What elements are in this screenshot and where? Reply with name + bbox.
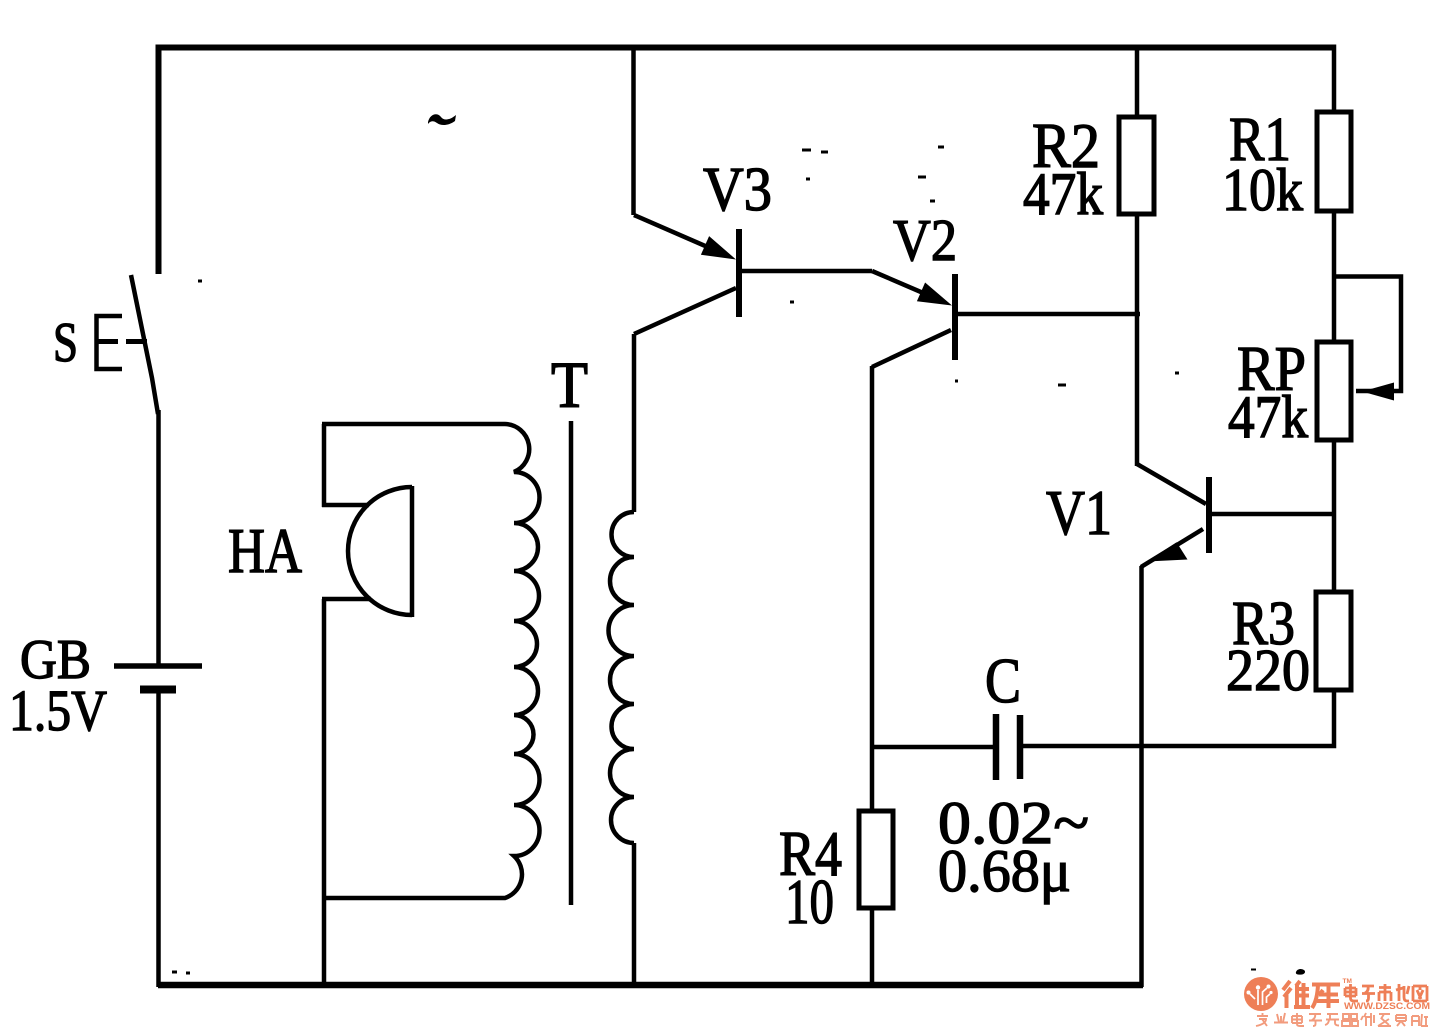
capacitor C plates — [996, 714, 1020, 780]
resistor R4 — [859, 811, 893, 908]
svg-text:T: T — [551, 349, 588, 422]
scan speck dots — [172, 147, 1179, 973]
wire V1 base — [1211, 512, 1336, 517]
wire capacitor left — [872, 745, 993, 750]
resistor R1 — [1317, 112, 1351, 211]
battery GB long plate — [114, 663, 202, 669]
transistor V1 — [1137, 464, 1209, 567]
switch S contact — [97, 316, 123, 369]
svg-text:0.68μ: 0.68μ — [938, 838, 1071, 904]
svg-text:V3: V3 — [703, 156, 772, 224]
svg-text:10k: 10k — [1222, 157, 1303, 223]
wire left border — [156, 45, 162, 275]
wire battery to bottom — [156, 692, 161, 987]
watermark logo circle — [1244, 977, 1278, 1011]
transformer T core — [569, 421, 574, 905]
wire top border to V3 emitter — [631, 45, 636, 215]
wire V2 base — [957, 312, 1140, 317]
wire R3 bottom to capacitor — [1023, 690, 1334, 746]
switch S blade — [131, 275, 158, 414]
wire V3 base to V2 emitter — [741, 269, 872, 274]
resistor R2 — [1119, 117, 1154, 214]
svg-text:V1: V1 — [1046, 477, 1112, 548]
wire RP to R3 — [1332, 440, 1337, 592]
wire R1 to RP — [1332, 211, 1337, 342]
svg-text:C: C — [985, 645, 1021, 716]
wire top border to R2 — [1135, 47, 1140, 117]
speaker HA terminals — [322, 424, 371, 987]
svg-text:S: S — [53, 312, 78, 374]
svg-text:HA: HA — [228, 515, 302, 586]
wire R4 bottom — [870, 908, 875, 987]
wire secondary bottom — [632, 843, 637, 987]
watermark char ku — [1312, 984, 1340, 1008]
switch S dashed link — [97, 339, 148, 344]
svg-text:V2: V2 — [893, 207, 957, 273]
wire bottom border — [158, 982, 1143, 989]
svg-text:47k: 47k — [1023, 161, 1103, 227]
scan speck checkmark — [428, 114, 456, 125]
watermark char wei — [1283, 981, 1310, 1008]
watermark slogan row — [1256, 1013, 1428, 1026]
svg-text:47k: 47k — [1228, 384, 1308, 450]
speaker HA dome — [348, 486, 412, 617]
wire top border — [156, 45, 1335, 51]
transformer T primary winding — [322, 424, 540, 898]
battery GB short plate — [140, 686, 176, 694]
RP wiper loop — [1334, 277, 1401, 392]
RP wiper arrow — [1362, 383, 1394, 401]
watermark text dianzishichangwang — [1345, 984, 1427, 1001]
svg-text:1.5V: 1.5V — [9, 678, 107, 743]
resistor R3 — [1316, 592, 1351, 690]
transformer T secondary winding — [609, 512, 635, 843]
wire secondary top to V3 collector — [632, 334, 637, 512]
svg-text:WWW.DZSC.COM: WWW.DZSC.COM — [1344, 1001, 1430, 1012]
wire R2 bottom to V1 collector — [1135, 214, 1140, 466]
wire V2 collector down to R4 — [870, 366, 875, 811]
svg-text:220: 220 — [1226, 637, 1310, 703]
potentiometer RP — [1317, 342, 1351, 440]
svg-text:TM: TM — [1343, 978, 1352, 985]
svg-text:10: 10 — [785, 866, 834, 937]
wire switch to battery — [156, 410, 161, 666]
transistor V2 — [872, 271, 955, 367]
wire V1 emitter to bottom — [1139, 566, 1144, 987]
transistor V3 — [634, 215, 739, 334]
watermark specks — [1251, 969, 1305, 975]
wire top border to R1 — [1332, 45, 1337, 113]
